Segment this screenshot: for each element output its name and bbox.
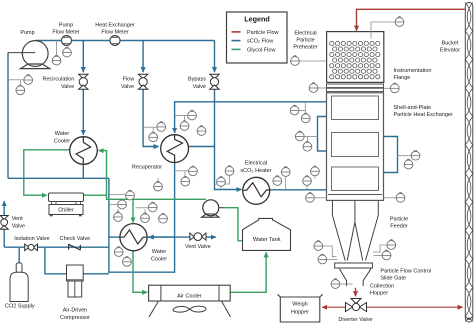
instrument gauge G12 at (221,181.8) xyxy=(217,176,226,189)
svg-text:Isolation Valve: Isolation Valve xyxy=(14,236,49,242)
svg-text:Elevator: Elevator xyxy=(440,48,460,54)
svg-text:Particle Flow Control: Particle Flow Control xyxy=(380,269,431,275)
instrument gauge G21 at (313.5,88) xyxy=(309,83,326,93)
instrument gauge G28 at (322.4,259.4) xyxy=(318,254,338,264)
instrument gauge G35 at (408.5,164.5) xyxy=(404,159,413,169)
instrument gauge G10 at (130,195.5) xyxy=(109,190,134,200)
wire particle hopper to diverter xyxy=(355,288,357,297)
wire long return horizontal xyxy=(8,177,109,179)
svg-text:sCO₂ Flow: sCO₂ Flow xyxy=(247,39,273,45)
CO2 cylinder xyxy=(10,263,28,302)
instrument gauge G19 at (314.9,171.3) xyxy=(311,166,320,179)
instrument gauge G14 at (285.7,172) xyxy=(281,167,290,190)
valve recirculation xyxy=(79,74,88,89)
instrument gauge G8 at (185.3,181.6) xyxy=(181,171,190,186)
wire recirculation branch upper xyxy=(82,41,84,73)
wire glycol down into water cooler 2 xyxy=(132,199,134,222)
svg-text:Instrumentation: Instrumentation xyxy=(394,68,432,74)
instrument gauge G16 at (305.7,118.3) xyxy=(301,102,310,123)
svg-text:Preheater: Preheater xyxy=(293,45,317,51)
water tank xyxy=(243,218,291,250)
instrument gauge G39 at (192,115.5) xyxy=(175,110,197,120)
svg-text:Valve: Valve xyxy=(12,224,25,230)
svg-text:Check Valve: Check Valve xyxy=(60,236,90,242)
instrument gauge G4 at (20.3,90.3) xyxy=(16,80,25,95)
instrument gauge G27 at (318.3,246) xyxy=(314,241,337,257)
svg-text:Particle Flow: Particle Flow xyxy=(247,30,279,36)
svg-text:Bypass: Bypass xyxy=(188,77,206,83)
instrument gauge G41 at (201.5,131) xyxy=(197,126,206,136)
wire CO2 supply line xyxy=(4,246,109,248)
instrument gauge G2 at (56.5,60.6) xyxy=(52,41,61,66)
water cooler 2 xyxy=(120,224,147,251)
svg-text:Collection: Collection xyxy=(370,284,394,290)
collection hopper xyxy=(339,269,371,286)
flow meter pump xyxy=(62,36,72,46)
wire compressor loop xyxy=(45,247,109,274)
svg-text:Valve: Valve xyxy=(61,84,74,90)
svg-text:Cooler: Cooler xyxy=(54,139,70,145)
svg-text:Particle: Particle xyxy=(296,38,314,44)
pump glycol xyxy=(202,200,224,217)
instrument gauge G3 at (28.2,80) xyxy=(8,75,33,85)
instrument gauge G6 at (118,217) xyxy=(114,209,123,221)
svg-text:Recirculation: Recirculation xyxy=(43,76,75,82)
svg-text:Valve: Valve xyxy=(193,84,206,90)
wire water cooler 2 left outlet xyxy=(109,236,120,238)
wire recirculation branch lower xyxy=(82,90,84,136)
wire particle diverter to weigh hopper xyxy=(322,306,346,308)
instrument gauge G36 at (152.7,207.4) xyxy=(136,202,158,212)
wire vent valve 1 outlet arrow xyxy=(3,201,5,215)
wire bypass valve branch upper xyxy=(214,41,216,73)
svg-text:Cooler: Cooler xyxy=(151,257,167,263)
flow meter heat exchanger xyxy=(110,36,120,46)
wire particle diverter to bucket elevator xyxy=(367,306,463,308)
instrument gauge G15 at (294.6,110.5) xyxy=(290,105,305,115)
instrument gauge G25 at (310,197.8) xyxy=(306,192,327,202)
bucket elevator xyxy=(465,3,473,323)
instrument gauge G42 at (161.2,126.9) xyxy=(143,122,166,132)
svg-text:Particle Heat Exchanger: Particle Heat Exchanger xyxy=(394,112,453,118)
instrument gauge G30 at (386.5,255.4) xyxy=(374,250,391,260)
wire glycol air cooler to tank xyxy=(229,252,266,292)
legend box xyxy=(227,12,288,63)
svg-text:Electrical: Electrical xyxy=(294,31,316,37)
instrument gauge G23 at (399.5,22) xyxy=(371,17,404,39)
svg-text:Compressor: Compressor xyxy=(60,315,90,321)
svg-text:Recuperator: Recuperator xyxy=(132,165,162,171)
instrument gauge G33 at (126.9,261.8) xyxy=(123,256,132,266)
wire pump suction left vertical xyxy=(7,53,9,179)
wire vent valve 2 outlet arrow xyxy=(205,236,217,238)
svg-text:Valve: Valve xyxy=(121,84,134,90)
instrument gauge G29 at (391.3,245) xyxy=(373,240,396,252)
svg-text:CO2 Supply: CO2 Supply xyxy=(5,304,35,310)
pump main CO2 pump xyxy=(8,41,50,69)
wire recuperator right to heater xyxy=(189,147,242,190)
svg-text:Pump: Pump xyxy=(59,23,73,29)
instrument gauge G5 at (122,204.5) xyxy=(109,199,127,209)
wire CO2 cylinder drop xyxy=(18,247,20,263)
valve vent 1 xyxy=(0,216,8,230)
wire glycol pump to tank top xyxy=(223,208,242,241)
instrument gauge G37 at (145,218.2) xyxy=(141,210,150,223)
svg-text:Flow Meter: Flow Meter xyxy=(101,30,128,36)
instrument gauge G9 at (158,186.6) xyxy=(154,178,163,191)
instrument gauge G31 at (335.4,284) xyxy=(331,279,353,289)
instrument gauge G18 at (307.4,146.7) xyxy=(303,136,312,151)
wire junction arrow into water cooler 2 xyxy=(149,236,175,238)
instrument gauge G38 at (163,218.7) xyxy=(159,213,168,223)
svg-text:Hopper: Hopper xyxy=(370,291,388,297)
svg-text:Diverter Valve: Diverter Valve xyxy=(338,317,372,323)
svg-text:Flange: Flange xyxy=(394,75,411,81)
water cooler 1 xyxy=(70,137,98,165)
svg-text:Vent Valve: Vent Valve xyxy=(185,244,211,250)
wire glycol cooler2 to air cooler xyxy=(133,251,147,293)
valve flow xyxy=(138,74,147,89)
instrument gauge G13 at (277.3,181) xyxy=(273,176,282,186)
instrument gauge G11 at (229.5,171) xyxy=(215,166,234,184)
recuperator xyxy=(161,135,189,163)
svg-text:Glycol Flow: Glycol Flow xyxy=(247,48,275,54)
diverter valve xyxy=(346,299,367,312)
flange instrumentation xyxy=(327,84,384,92)
svg-text:Water Tank: Water Tank xyxy=(253,237,281,243)
svg-text:Electrical: Electrical xyxy=(245,160,267,166)
svg-text:Flow: Flow xyxy=(123,77,135,83)
heater electrical sCO2 xyxy=(243,177,270,204)
wire column right bracket xyxy=(379,137,398,173)
weigh hopper xyxy=(278,294,323,322)
wire recuperator top to column xyxy=(175,102,332,133)
svg-text:Legend: Legend xyxy=(244,15,270,24)
instrument gauge G43 at (153.2,137.3) xyxy=(149,127,158,142)
instrument gauge G22 at (394.8,88.3) xyxy=(384,83,400,93)
svg-text:Slide Gate: Slide Gate xyxy=(380,276,406,282)
wire glycol cooler1 to chiller xyxy=(24,150,70,195)
svg-text:Air Cooler: Air Cooler xyxy=(177,293,202,299)
heat exchanger column shell xyxy=(327,93,384,201)
instrument gauge G17 at (299.8,136.4) xyxy=(295,131,317,141)
wire flow valve branch upper xyxy=(142,41,144,73)
wire glycol branch to cooler2 xyxy=(107,195,207,199)
svg-text:sCO₂ Heater: sCO₂ Heater xyxy=(240,168,271,174)
particle feeder cones xyxy=(332,200,378,260)
instrument gauge G1 at (67,52.5) xyxy=(63,46,72,57)
wire water cooler 1 outlet xyxy=(82,164,84,178)
valve bypass xyxy=(210,74,219,89)
svg-text:Hopper: Hopper xyxy=(291,310,309,316)
svg-text:Particle: Particle xyxy=(390,217,408,223)
svg-text:Water: Water xyxy=(55,131,70,137)
wire water cooler 2 to vent valve 2 xyxy=(147,236,190,238)
slide gate xyxy=(335,263,373,268)
air cooler xyxy=(149,285,231,317)
svg-text:Flow Meter: Flow Meter xyxy=(52,30,79,36)
compressor air-driven xyxy=(67,265,84,297)
svg-text:Water: Water xyxy=(152,249,167,255)
wire particle red top loop xyxy=(357,9,467,31)
wire glycol chiller to cooler1 xyxy=(84,151,107,196)
valve vent 2 xyxy=(190,233,206,241)
instrument gauge G7 at (192.9,171.3) xyxy=(175,166,198,176)
instrument gauge G24 at (295,61) xyxy=(291,56,327,66)
wire flow valve branch to recuperator xyxy=(143,90,159,147)
wire column left bracket xyxy=(318,117,332,152)
wire heater outlet to column plate 3 xyxy=(269,189,331,191)
svg-text:Feeder: Feeder xyxy=(390,224,408,230)
svg-text:Vent: Vent xyxy=(12,216,23,222)
svg-text:Chiller: Chiller xyxy=(58,208,74,214)
preheater electrical particle xyxy=(327,32,384,83)
valve isolation xyxy=(25,244,38,251)
wire vent valve 1 riser xyxy=(3,229,5,247)
svg-text:Bucket: Bucket xyxy=(442,41,459,47)
instrument gauge G34 at (415.5,155.7) xyxy=(398,150,420,160)
svg-text:Pump: Pump xyxy=(20,30,34,36)
wire bypass valve branch lower xyxy=(214,90,216,147)
instrument gauge G20 at (307,181) xyxy=(303,176,312,190)
chiller xyxy=(49,193,84,216)
wire sCO2 main top line xyxy=(35,40,214,42)
instrument gauge G26 at (400.5,197.8) xyxy=(384,192,405,202)
svg-text:Weigh: Weigh xyxy=(292,302,308,308)
svg-text:Heat Exchanger: Heat Exchanger xyxy=(95,23,135,29)
valve check xyxy=(69,244,81,250)
instrument gauge G32 at (118.7,252) xyxy=(114,247,123,257)
svg-text:Shell-and-Plate: Shell-and-Plate xyxy=(394,105,432,111)
instrument gauge G40 at (184.5,126) xyxy=(180,115,189,130)
svg-text:Air-Driven: Air-Driven xyxy=(63,308,87,314)
wire recuperator bottom downcomer xyxy=(109,162,175,272)
